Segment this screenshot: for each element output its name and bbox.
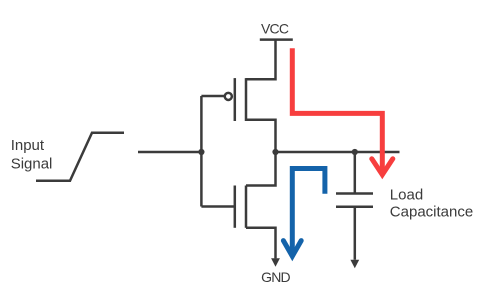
node capacitor tap — [352, 149, 358, 155]
VCC rail — [260, 38, 293, 41]
input ramp symbol — [36, 133, 124, 181]
wire to Q1 gate — [201, 95, 225, 98]
wire Q2 source to GND — [246, 228, 276, 259]
svg-text:Input: Input — [11, 137, 45, 154]
svg-text:GND: GND — [261, 269, 290, 285]
capacitor C (load) — [336, 152, 373, 260]
svg-text:Load: Load — [390, 186, 423, 203]
transistor Q2 (NMOS) — [235, 186, 246, 228]
Load Capacitance label — [390, 186, 473, 220]
wire input — [138, 151, 201, 154]
wire gate bus — [200, 96, 203, 207]
svg-text:VCC: VCC — [261, 20, 289, 36]
transistor Q1 (PMOS) — [225, 78, 246, 121]
ground arrow at Q2 source — [271, 258, 280, 267]
wire VCC to Q1 source — [246, 40, 276, 80]
wire Q1 drain to output node — [246, 120, 276, 152]
ground arrow at capacitor — [350, 260, 359, 269]
wire to Q2 gate — [201, 205, 234, 208]
output wire — [276, 151, 400, 154]
wire output node to Q2 drain — [246, 152, 276, 186]
node input junction — [198, 149, 204, 155]
node output junction — [272, 149, 278, 155]
charging current path (red arrow VCC to load) — [292, 48, 393, 174]
svg-text:Signal: Signal — [11, 155, 53, 172]
svg-text:Capacitance: Capacitance — [390, 203, 473, 220]
Input Signal label — [11, 137, 53, 172]
discharging current path (blue arrow load to GND) — [283, 169, 325, 257]
